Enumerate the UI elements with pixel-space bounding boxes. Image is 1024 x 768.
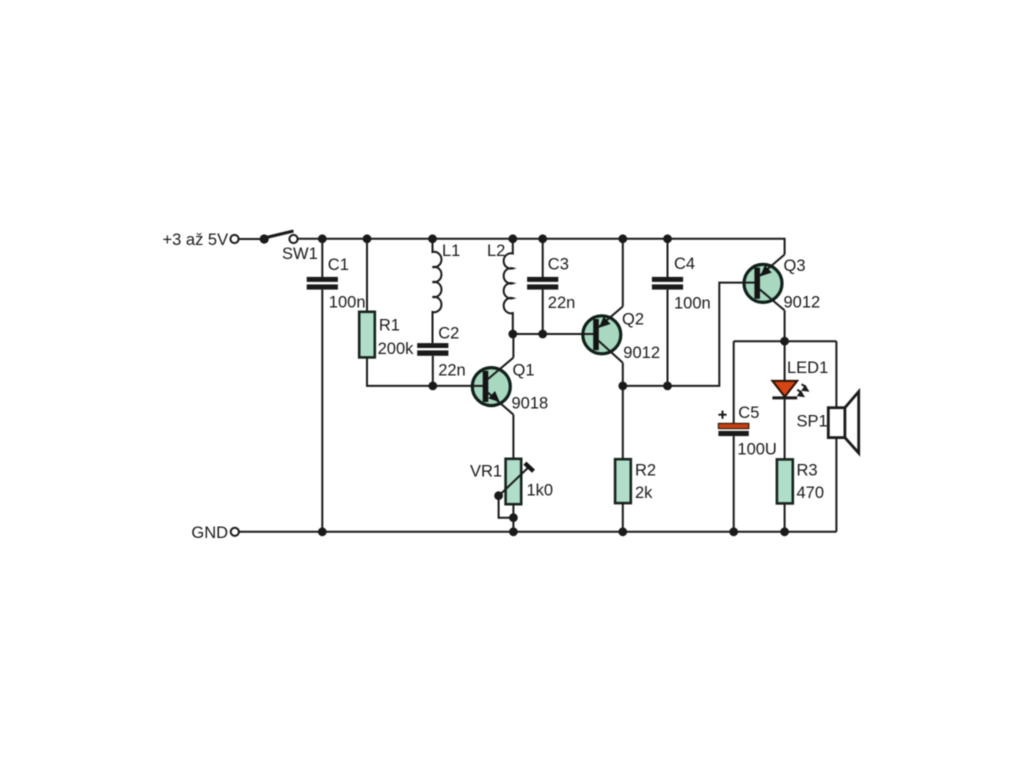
switch SW1 throw terminal xyxy=(289,235,297,243)
svg-text:9018: 9018 xyxy=(512,395,549,413)
transistor Q1 9018 xyxy=(472,358,513,415)
svg-text:C2: C2 xyxy=(438,324,459,342)
capacitor C3 xyxy=(527,277,558,290)
resistor R2 xyxy=(615,459,631,503)
capacitor C5 xyxy=(718,423,748,436)
switch SW1 pole dot xyxy=(260,234,269,243)
wire LED1 anode lead xyxy=(784,341,786,381)
svg-text:SW1: SW1 xyxy=(282,245,318,263)
svg-text:VR1: VR1 xyxy=(470,462,502,480)
wire Q1 emitter to VR1 xyxy=(512,415,514,459)
node junction VR1 bottom xyxy=(509,513,518,522)
node junction C1 ground xyxy=(318,527,327,536)
switch SW1 lever xyxy=(264,231,293,238)
capacitor C5 polarity plus xyxy=(718,411,726,419)
wire C1 bottom lead to ground rail xyxy=(321,290,323,532)
node junction C5 ground xyxy=(729,527,738,536)
node junction C4 top xyxy=(663,234,672,243)
wire R2 bottom lead xyxy=(622,503,624,532)
speaker SP1 xyxy=(828,392,858,454)
wire C4 bottom lead xyxy=(667,290,669,386)
inductor L2 xyxy=(504,239,513,334)
wire VR1 bottom lead xyxy=(512,504,514,532)
node junction VR1 ground xyxy=(509,527,518,536)
svg-text:100n: 100n xyxy=(329,293,366,311)
node junction C3 top xyxy=(538,234,547,243)
wire R3 bottom lead xyxy=(784,503,786,531)
node junction C3 bottom xyxy=(538,330,547,339)
wire R1 top lead xyxy=(366,239,368,312)
wire C5 top lead xyxy=(733,341,735,424)
svg-text:SP1: SP1 xyxy=(797,413,828,431)
node junction C1 top xyxy=(318,234,327,243)
svg-text:+3 až 5V: +3 až 5V xyxy=(163,231,229,249)
transistor Q3 9012 xyxy=(744,255,785,311)
node junction R1 top xyxy=(363,234,372,243)
svg-text:R3: R3 xyxy=(797,462,818,480)
node junction Q3 collector xyxy=(780,337,789,346)
LED LED1 xyxy=(772,381,809,398)
wire R1 bottom to Q1 base rail xyxy=(367,357,473,386)
wire VR1 wiper to bottom xyxy=(499,496,514,518)
wire output node rail xyxy=(734,340,837,342)
wire C3 top lead xyxy=(542,239,544,277)
inductor L1 xyxy=(433,239,442,343)
node junction C2 bottom on base rail xyxy=(428,382,437,391)
wire Q2 emitter to top rail xyxy=(622,239,624,307)
wire collector rail to Q3 base xyxy=(623,283,745,386)
wire SP1 top lead xyxy=(835,341,837,408)
node junction Q2 emitter top xyxy=(618,234,627,243)
svg-text:22n: 22n xyxy=(548,294,576,312)
svg-text:1k0: 1k0 xyxy=(527,481,554,499)
node junction Q2 collector xyxy=(618,382,627,391)
svg-text:L2: L2 xyxy=(487,242,505,260)
wire C3 bottom lead xyxy=(542,290,544,334)
wire C2 bottom lead xyxy=(432,356,434,386)
node junction L1 top xyxy=(428,234,437,243)
svg-text:C3: C3 xyxy=(548,256,569,274)
resistor R1 xyxy=(359,312,375,358)
wire SP1 bottom lead xyxy=(835,438,837,532)
svg-text:R2: R2 xyxy=(635,462,656,480)
svg-text:C5: C5 xyxy=(738,404,759,422)
svg-text:100n: 100n xyxy=(674,295,711,313)
svg-text:22n: 22n xyxy=(438,361,466,379)
wire Q2 collector down xyxy=(622,363,624,386)
svg-text:Q2: Q2 xyxy=(622,311,644,329)
wire terminal to switch xyxy=(239,238,260,240)
node junction C4 bottom xyxy=(663,382,672,391)
svg-text:C1: C1 xyxy=(328,256,349,274)
wire top supply rail xyxy=(298,239,785,255)
svg-text:470: 470 xyxy=(797,484,825,502)
svg-text:100U: 100U xyxy=(737,441,776,459)
node junction R2 ground xyxy=(618,527,627,536)
wire L2 bottom to Q2 base xyxy=(513,333,584,335)
wire C4 top lead xyxy=(667,239,669,277)
wire Q3 collector down xyxy=(784,310,786,341)
wire ground rail xyxy=(239,531,836,533)
svg-text:9012: 9012 xyxy=(784,293,821,311)
wire Q1 collector vertical xyxy=(512,334,514,358)
wire LED1 cathode to R3 xyxy=(784,398,786,459)
node junction L2 bottom xyxy=(508,330,517,339)
svg-text:2k: 2k xyxy=(635,484,653,502)
potentiometer VR1 xyxy=(499,459,534,504)
wire R2 top lead xyxy=(622,386,624,459)
node VR1 wiper dot xyxy=(494,491,503,500)
svg-text:LED1: LED1 xyxy=(787,359,828,377)
svg-text:C4: C4 xyxy=(674,255,695,273)
resistor R3 xyxy=(777,459,793,503)
capacitor C4 xyxy=(652,277,683,290)
svg-text:200k: 200k xyxy=(378,340,415,358)
node junction R3 ground xyxy=(780,527,789,536)
svg-text:L1: L1 xyxy=(442,242,460,260)
capacitor C1 xyxy=(307,277,338,290)
svg-text:GND: GND xyxy=(191,524,228,542)
svg-text:Q3: Q3 xyxy=(784,257,806,275)
transistor Q2 9012 xyxy=(583,307,623,363)
capacitor C2 xyxy=(417,343,448,356)
svg-text:9012: 9012 xyxy=(623,344,660,362)
svg-text:Q1: Q1 xyxy=(513,361,535,379)
power terminal circle xyxy=(230,235,238,243)
wire C5 bottom lead xyxy=(733,436,735,532)
ground terminal circle xyxy=(231,528,239,536)
wire C1 top lead xyxy=(321,239,323,277)
node junction L2 top xyxy=(508,234,517,243)
svg-text:R1: R1 xyxy=(379,317,400,335)
